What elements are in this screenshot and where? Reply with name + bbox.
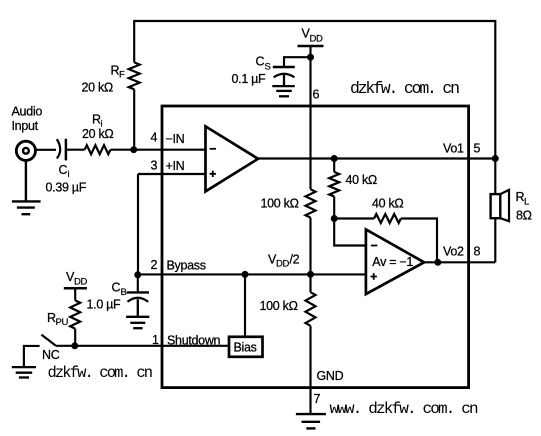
node VDD junction (307, 54, 314, 61)
wire Vo2 row (424, 261, 495, 263)
wire feedback row (334, 219, 437, 263)
svg-text:8: 8 (474, 245, 481, 259)
svg-text:Vo2: Vo2 (443, 245, 464, 259)
ground CS (272, 75, 295, 97)
svg-text:F: F (119, 70, 125, 81)
svg-text:www. dzkfw. com. cn: www. dzkfw. com. cn (330, 400, 479, 418)
svg-text:Av = −1: Av = −1 (372, 255, 413, 269)
resistor 100k lower (306, 292, 316, 326)
Bias box (229, 337, 263, 357)
node VDD/2 (307, 271, 314, 278)
svg-text:0.39 µF: 0.39 µF (46, 181, 87, 195)
node shutdown (71, 342, 78, 349)
svg-text:5: 5 (474, 142, 481, 156)
wire Ci to Ri (66, 149, 85, 151)
svg-text:20 kΩ: 20 kΩ (82, 127, 113, 141)
node 40k bottom (331, 215, 338, 222)
power VDD bar (298, 45, 324, 48)
wire VDD to CS (284, 57, 311, 67)
node bias tap (242, 271, 249, 278)
audio input connector J1 (16, 141, 35, 160)
svg-text:C: C (59, 163, 68, 177)
svg-text:Input: Input (12, 119, 39, 133)
svg-text:40 kΩ: 40 kΩ (372, 197, 403, 211)
wire RPU top lead (74, 288, 76, 300)
wire +IN (138, 173, 206, 175)
svg-text:4: 4 (151, 131, 158, 145)
svg-text:Vo1: Vo1 (443, 142, 464, 156)
wire switch left lead (24, 346, 40, 367)
wire feedback top (134, 21, 495, 194)
svg-text:8Ω: 8Ω (516, 209, 532, 223)
svg-text:40 kΩ: 40 kΩ (346, 173, 377, 187)
wire bypass row (138, 273, 366, 275)
svg-text:DD: DD (276, 259, 290, 270)
capacitor CB (137, 274, 139, 292)
svg-text:−IN: −IN (166, 132, 185, 146)
switch S1 blade (41, 335, 55, 346)
wire op2 -IN (334, 219, 366, 246)
wire Vo1 row (258, 157, 495, 159)
op-amp U1A (206, 126, 259, 191)
wire bias stub (244, 274, 246, 336)
svg-text:DD: DD (310, 34, 324, 45)
svg-text:Audio: Audio (12, 105, 43, 119)
svg-text:Bypass: Bypass (167, 259, 206, 273)
svg-text:2: 2 (151, 258, 158, 272)
node Vo2 (434, 259, 441, 266)
svg-text:B: B (121, 287, 127, 298)
node bypass (134, 271, 141, 278)
svg-text:L: L (524, 197, 529, 208)
svg-text:DD: DD (74, 277, 88, 288)
ground GND pin7 (296, 414, 326, 428)
resistor 40k horizontal (374, 214, 401, 223)
resistor RF (129, 62, 140, 89)
svg-text:dzkfw. com. cn: dzkfw. com. cn (350, 79, 459, 98)
op-amp U1B (366, 229, 424, 294)
svg-text:PU: PU (56, 317, 69, 328)
wire Ri to -IN (111, 149, 206, 151)
resistor Ri (85, 145, 111, 154)
resistor 40k vertical (329, 172, 339, 197)
wire center bottom to ground (309, 326, 311, 414)
svg-text:1.0 µF: 1.0 µF (87, 298, 122, 312)
svg-text:100 kΩ: 100 kΩ (260, 299, 298, 313)
node 40k top (331, 155, 338, 162)
ground CB (126, 299, 149, 328)
svg-text:dzkfw. com. cn: dzkfw. com. cn (48, 364, 152, 382)
power VDD bar RPU (64, 287, 87, 290)
svg-text:0.1 µF: 0.1 µF (232, 72, 267, 86)
svg-text:3: 3 (151, 159, 158, 173)
ground NC (12, 367, 36, 377)
svg-text:NC: NC (42, 348, 60, 362)
svg-text:Shutdown: Shutdown (167, 334, 221, 348)
svg-text:/2: /2 (290, 253, 300, 267)
wire VDD vertical (309, 46, 311, 189)
node Vo1 outer (492, 155, 499, 162)
svg-text:C: C (256, 55, 265, 69)
wire RF bottom lead (133, 89, 135, 149)
capacitor Ci (57, 139, 60, 158)
wire RPU bottom lead (74, 329, 76, 346)
speaker RL (491, 194, 501, 218)
svg-text:GND: GND (317, 369, 344, 383)
svg-text:C: C (112, 281, 121, 295)
svg-text:6: 6 (313, 88, 320, 102)
svg-text:7: 7 (314, 392, 321, 406)
svg-text:100 kΩ: 100 kΩ (261, 197, 299, 211)
svg-text:S: S (265, 62, 271, 73)
wire shutdown row (56, 345, 229, 347)
resistor RPU (70, 300, 80, 328)
resistor 100k upper (306, 189, 316, 217)
wire center mid (309, 218, 311, 293)
svg-text:+IN: +IN (166, 159, 185, 173)
IC box U1 (162, 106, 469, 388)
svg-text:i: i (68, 169, 70, 180)
svg-text:1: 1 (152, 333, 159, 347)
svg-text:20 kΩ: 20 kΩ (82, 81, 113, 95)
node input junction (130, 146, 137, 153)
wire +IN to bypass (137, 174, 139, 274)
ground input (12, 160, 41, 214)
svg-text:Bias: Bias (234, 341, 257, 355)
wire connector to Ci (36, 149, 56, 151)
resistor 40k vertical leads (333, 159, 335, 219)
wire speaker bottom (494, 218, 496, 262)
capacitor CS (273, 66, 295, 68)
